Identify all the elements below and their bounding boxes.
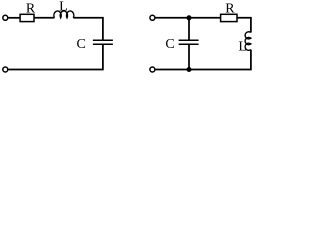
inductor L (left circuit, 3 loops) [54,11,74,18]
capacitor C plates (left circuit) [93,39,113,41]
wire inductor bottom to bottom-right corner and left [155,50,251,70]
svg-text:R: R [225,1,235,16]
capacitor C plates (right circuit) [179,39,199,41]
svg-text:R: R [26,1,36,16]
terminal circle bottom-left (left circuit) [3,67,8,72]
wire resistor to inductor [34,17,54,19]
svg-text:C: C [165,37,174,52]
wire resistor to top-right corner, down to inductor [237,18,251,33]
terminal circle bottom-left (right circuit) [150,67,155,72]
junction node bottom (right circuit) [187,67,192,72]
top wire to resistor (right circuit) [155,17,220,19]
svg-text:C: C [77,37,86,52]
junction node top (right circuit) [187,15,192,20]
wire capacitor bottom to bottom-right corner and bottom-left [8,44,103,69]
wire capacitor branch bottom (right circuit) [188,44,190,69]
resistor R (left circuit) [20,14,34,21]
resistor R (right circuit) [221,14,237,21]
terminal circle top-left (left circuit) [3,15,8,20]
svg-text:L: L [238,39,247,54]
wire inductor to top-right corner, down to capacitor [73,18,103,40]
inductor L (right circuit, vertical, 3 loops bulging left) [245,32,251,51]
svg-text:L: L [59,0,68,15]
wire terminal to resistor R [8,17,20,19]
terminal circle top-left (right circuit) [150,15,155,20]
wire capacitor branch top (right circuit) [188,18,190,40]
